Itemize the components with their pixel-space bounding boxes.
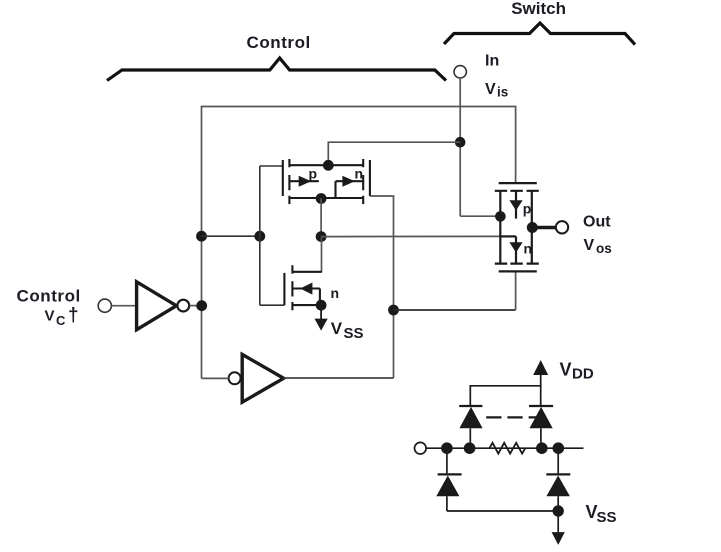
brace Control — [107, 58, 446, 81]
node on rail at 236 — [196, 231, 207, 242]
wire TG top to In line — [328, 142, 460, 165]
terminal In — [454, 66, 466, 78]
svg-text:V: V — [485, 81, 496, 98]
svg-text:p: p — [523, 201, 532, 217]
node ESD A — [441, 442, 453, 454]
node U2 net — [388, 305, 399, 316]
svg-text:In: In — [485, 53, 499, 70]
wire ESD mid — [426, 447, 583, 449]
svg-text:†: † — [68, 305, 79, 326]
svg-text:V: V — [584, 237, 595, 254]
inverter U1 — [137, 282, 190, 330]
transistor Q3 NMOS — [284, 265, 322, 310]
node dot on In line — [455, 137, 466, 148]
wire control top rail — [202, 107, 516, 379]
svg-text:SS: SS — [344, 325, 364, 342]
svg-text:V: V — [560, 360, 572, 380]
wire TG bottom down to signal — [320, 199, 322, 237]
transistor n (center TG right) — [336, 159, 370, 204]
wire signal mid to switch — [321, 235, 499, 237]
node TG top — [323, 160, 334, 171]
svg-text:os: os — [596, 241, 612, 256]
wire VDD top link — [470, 386, 540, 406]
diode D4 (lower right) — [546, 448, 570, 511]
label Vis — [485, 81, 508, 100]
svg-text:n: n — [355, 166, 364, 182]
node ESD VSS — [553, 505, 564, 516]
wire signal down to NMOS drain — [321, 237, 323, 272]
svg-text:V: V — [331, 319, 343, 338]
terminal Control — [98, 299, 111, 312]
transistor p (switch TG top) — [495, 183, 539, 264]
transistor p (center TG left) — [283, 159, 363, 204]
node ESD D — [553, 442, 565, 454]
transistor n (switch TG bottom) — [495, 236, 539, 271]
diode D3 (lower left) — [436, 448, 461, 511]
svg-text:SS: SS — [597, 509, 617, 526]
brace Switch — [444, 23, 635, 45]
node gate line — [254, 231, 265, 242]
power VDD arrow — [533, 360, 548, 386]
power VSS arrow (ESD) — [552, 511, 565, 545]
dashed link — [486, 416, 536, 418]
inverter U2 — [229, 354, 284, 402]
ESD terminal — [415, 442, 427, 454]
node TG bottom — [316, 193, 327, 204]
label Vos — [584, 237, 612, 256]
svg-text:Control: Control — [17, 287, 81, 306]
wire In vertical — [459, 78, 461, 216]
wire control input lead — [111, 305, 136, 307]
label VDD — [560, 360, 594, 383]
terminal Out — [556, 221, 568, 233]
svg-text:is: is — [497, 85, 508, 100]
wire gate to p bracket — [260, 165, 283, 167]
svg-text:C: C — [56, 313, 66, 328]
power VSS (NMOS) — [315, 305, 328, 330]
node U1 output — [196, 300, 207, 311]
svg-text:p: p — [309, 166, 318, 182]
label VC dagger — [45, 305, 79, 328]
wire n gate to U2 net — [370, 196, 394, 378]
svg-text:DD: DD — [572, 366, 594, 383]
diode D1 (upper left) — [459, 406, 482, 448]
label VSS (ESD) — [586, 502, 617, 526]
wire ESD bottom — [447, 510, 558, 512]
diode D2 (upper right) — [529, 406, 553, 448]
node NMOS source — [316, 300, 327, 311]
node signal mid — [316, 231, 327, 242]
wire gate to NMOS bracket — [260, 304, 285, 306]
node ESD B — [464, 442, 476, 454]
wire U1 output — [189, 305, 201, 307]
wire out thick — [532, 226, 556, 230]
svg-text:Switch: Switch — [511, 0, 566, 18]
wire U2 net to switch bottom — [394, 309, 516, 311]
svg-text:Out: Out — [583, 214, 611, 231]
node switch out — [527, 222, 538, 233]
svg-text:Control: Control — [247, 33, 311, 52]
svg-text:V: V — [45, 308, 55, 325]
svg-text:n: n — [331, 285, 340, 301]
wire In to switch left — [460, 215, 497, 217]
label VSS (NMOS) — [331, 319, 364, 342]
resistor R — [490, 443, 526, 454]
wire U2 input — [202, 377, 229, 379]
svg-text:n: n — [524, 241, 533, 257]
node switch left — [495, 211, 506, 222]
wire gate vertical — [259, 166, 261, 305]
node ESD C — [536, 442, 548, 454]
wire rail to gate line — [202, 235, 260, 237]
wire U2 output — [284, 377, 394, 379]
